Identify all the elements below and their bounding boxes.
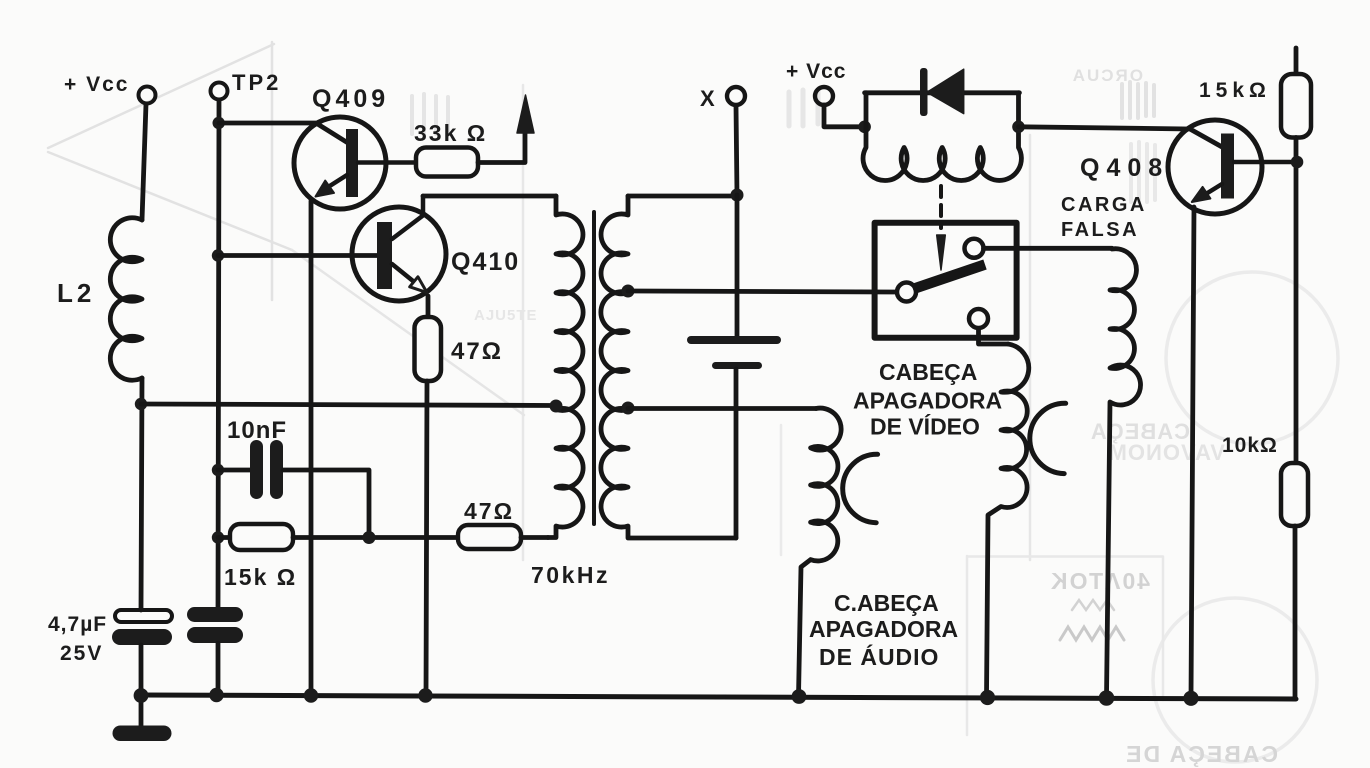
svg-text:10kΩ: 10kΩ	[1222, 434, 1278, 457]
switch S1 common contact	[897, 283, 916, 302]
svg-text:L2: L2	[57, 278, 95, 308]
wire top of R5	[1294, 48, 1299, 74]
svg-text:33k Ω: 33k Ω	[414, 120, 487, 146]
svg-text:47Ω: 47Ω	[464, 498, 514, 524]
wire relay to Q408 base	[1019, 127, 1224, 148]
terminal X	[727, 87, 745, 195]
junction T1 primary centre tap	[550, 400, 563, 413]
relay coil K1	[863, 93, 1021, 181]
wire C4 to secondary bottom	[734, 369, 739, 538]
svg-text:AJU5TE: AJU5TE	[474, 307, 538, 324]
capacitor C1 4,7uF	[112, 610, 172, 645]
diode D1	[920, 68, 964, 116]
inductor L2	[110, 218, 142, 380]
wire C3 to bottom rail	[216, 643, 221, 696]
wire C1 to bottom rail	[139, 645, 144, 696]
switch S1 upper contact	[965, 239, 984, 258]
svg-text:47Ω: 47Ω	[451, 338, 503, 365]
junction bottom rail / video head	[980, 690, 995, 705]
wire Q410 emitter to R4	[426, 296, 431, 317]
wire Q410 collector to transformer	[423, 194, 556, 199]
wire R1 to output arrow	[478, 133, 525, 163]
bottom rail wire	[141, 695, 1296, 699]
svg-text:70kHz: 70kHz	[531, 562, 610, 588]
wire relay top (diode branch)	[865, 90, 1020, 95]
wire T1 secondary top to X node	[628, 194, 737, 199]
svg-text:+ Vcc: + Vcc	[786, 60, 846, 83]
wire R5 to R6	[1294, 138, 1299, 464]
+Vcc terminal (right)	[815, 87, 865, 127]
switch S1 lower contact	[969, 309, 988, 328]
wire R2 to R3	[293, 535, 458, 540]
junction C2 branch / R2 line	[363, 531, 376, 544]
resistor R5 15kOhm	[1281, 74, 1311, 138]
video erase head coil	[987, 344, 1029, 697]
+Vcc terminal (left)	[139, 87, 156, 221]
junction TP2/C2	[212, 464, 224, 476]
svg-text:APAGADORA: APAGADORA	[853, 388, 1002, 414]
svg-text:X: X	[700, 86, 715, 111]
svg-text:+ Vcc: + Vcc	[64, 73, 129, 96]
svg-text:Q410: Q410	[451, 248, 520, 276]
svg-text:CARGA: CARGA	[1061, 194, 1147, 216]
capacitor C3 (series on TP2 rail)	[187, 607, 243, 643]
wire secondary tap to switch common	[628, 291, 897, 292]
svg-text:40ΛTOK: 40ΛTOK	[1049, 568, 1150, 594]
svg-text:APAGADORA: APAGADORA	[809, 616, 958, 642]
junction TP2/R2	[212, 531, 224, 543]
relay actuation dashed arrow	[937, 186, 946, 270]
svg-text:DE ÁUDIO: DE ÁUDIO	[819, 643, 939, 670]
svg-text:DE VÍDEO: DE VÍDEO	[870, 413, 980, 440]
junction X wire / secondary top	[731, 189, 744, 202]
transistor Q409	[294, 117, 416, 209]
junction relay right	[1012, 121, 1025, 134]
transformer T1 primary (left winding)	[548, 196, 583, 538]
junction bottom rail / Q408 emitter	[1183, 691, 1198, 706]
wire tap line left (to transformer centre tap)	[141, 404, 556, 406]
wire Q409 emitter to bottom rail	[309, 201, 314, 696]
ground	[113, 695, 172, 741]
junction Q408 collector / R5	[1291, 156, 1304, 169]
wire R3 to transformer primary bottom	[521, 535, 548, 540]
svg-text:FALSA: FALSA	[1061, 219, 1139, 241]
TP2 terminal	[211, 83, 228, 608]
transformer T1 secondary (right winding)	[601, 196, 736, 538]
junction TP2/Q409 base	[213, 117, 225, 129]
resistor R4 47Ohm (vertical)	[415, 317, 442, 381]
transformer T1 core	[592, 212, 596, 524]
junction bottom rail / C3	[209, 688, 223, 702]
wire secondary tap to audio head	[628, 406, 816, 411]
junction T1 secondary tap (video line)	[622, 285, 635, 298]
wire TP2 to Q410 base	[218, 253, 377, 258]
resistor R3 47Ohm (horizontal)	[458, 525, 521, 549]
wire R4 to bottom rail	[426, 381, 427, 696]
svg-text:ORCUA: ORCUA	[1071, 66, 1143, 85]
wire lower contact to video head coil	[979, 329, 1009, 345]
svg-text:4,7µF: 4,7µF	[48, 613, 107, 636]
svg-text:Q409: Q409	[312, 85, 389, 113]
junction bottom rail / audio head	[792, 689, 807, 704]
svg-text:Q408: Q408	[1080, 154, 1169, 182]
svg-text:CABEÇA DE: CABEÇA DE	[1124, 741, 1278, 767]
wire X to C4	[735, 195, 740, 336]
junction bottom rail / Q409 emitter	[304, 688, 318, 702]
transistor Q410	[352, 196, 446, 301]
wire TP2 to Q409 base	[219, 123, 348, 143]
wire Q408 emitter to bottom rail	[1191, 207, 1194, 698]
node A junction (Vcc rail / tap line)	[135, 398, 147, 410]
svg-text:TP2: TP2	[232, 70, 281, 95]
audio head gap arc	[843, 454, 878, 522]
svg-text:C.ABEÇA: C.ABEÇA	[834, 590, 939, 616]
transistor Q408	[1168, 120, 1298, 214]
junction relay left	[858, 121, 871, 134]
svg-text:10nF: 10nF	[227, 417, 287, 444]
junction T1 secondary tap (audio line)	[622, 402, 635, 415]
capacitor C2 10nF	[250, 440, 283, 499]
svg-text:15k Ω: 15k Ω	[224, 564, 297, 590]
wire C2 to R2 line	[283, 470, 369, 538]
dummy load coil (CARGA FALSA)	[1107, 249, 1141, 697]
svg-text:25V: 25V	[60, 642, 103, 665]
junction bottom rail / R4	[418, 688, 432, 702]
audio erase head coil	[799, 408, 842, 696]
junction TP2/Q410 base	[212, 249, 224, 261]
wire TP2 to R2	[218, 535, 230, 540]
output arrow (to X)	[517, 95, 534, 133]
switch S1 lever	[913, 265, 985, 290]
svg-text:VAVONOM: VAVONOM	[1108, 440, 1225, 465]
wire R6 to bottom rail	[1293, 526, 1298, 698]
video head gap arc	[1030, 403, 1066, 473]
junction bottom rail / C1	[134, 688, 149, 703]
capacitor C4 (polarised)	[687, 336, 781, 369]
wire L2 to C1	[141, 378, 142, 610]
switch S1 box	[875, 223, 1017, 338]
resistor R1 33kOhm	[416, 148, 478, 177]
svg-text:15kΩ: 15kΩ	[1199, 79, 1271, 102]
wire upper contact to dummy-load coil	[984, 246, 1113, 251]
resistor R2 15kOhm	[230, 524, 293, 550]
wire TP2 to C2	[218, 468, 250, 473]
svg-text:CABEÇA: CABEÇA	[879, 359, 977, 385]
resistor R6 10kOhm	[1281, 463, 1308, 526]
junction bottom rail / dummy load	[1099, 690, 1115, 706]
